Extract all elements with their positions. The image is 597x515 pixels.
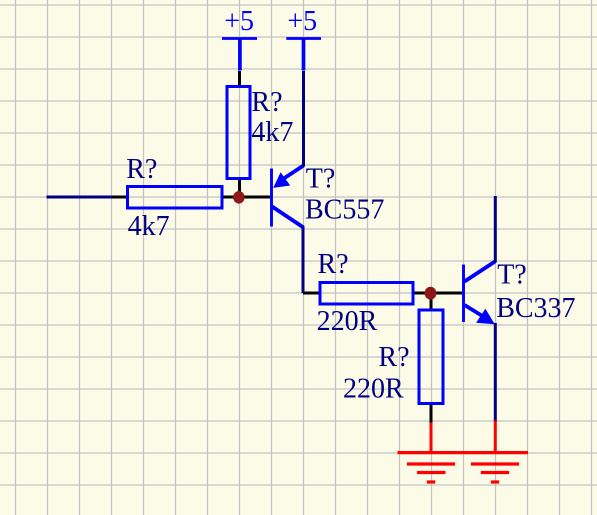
ground bar shared — [398, 451, 529, 454]
svg-text:+5: +5 — [224, 6, 254, 37]
wire pin black: P1 to R2 top — [238, 71, 241, 85]
svg-text:T?: T? — [306, 163, 336, 194]
resistor R1 horizontal 4k7 body — [128, 187, 223, 209]
node B junction dot — [425, 287, 437, 300]
node A junction dot — [233, 191, 245, 204]
wire pin black: R1 right to node A to Q1 base — [224, 196, 271, 199]
wire pin black: R2 bottom to node A — [238, 180, 241, 197]
svg-text:220R: 220R — [343, 373, 404, 404]
resistor R4 vertical 220R body — [419, 310, 443, 404]
svg-text:4k7: 4k7 — [128, 211, 170, 242]
wire red: Q2 emitter to ground — [494, 421, 497, 453]
wire navy input left — [47, 196, 115, 199]
wire navy: Q2 emitter down — [494, 323, 497, 422]
transistor Q1 BC557 PNP — [272, 166, 304, 228]
svg-text:BC557: BC557 — [305, 194, 384, 225]
wire pin black: node B down to R4 top — [430, 293, 433, 309]
svg-text:R?: R? — [318, 249, 349, 280]
wire pin black: R4 bottom — [430, 405, 433, 424]
power +5 symbol P2 — [286, 39, 321, 71]
wire navy: Q1 collector down — [302, 227, 305, 294]
svg-text:BC337: BC337 — [496, 293, 575, 324]
wire pin black: R3 right to node B to Q2 base — [415, 292, 463, 295]
wire navy: Q2 collector up — [494, 196, 497, 263]
svg-text:+5: +5 — [287, 6, 317, 37]
transistor Q2 emitter arrow — [476, 309, 495, 325]
svg-text:R?: R? — [378, 342, 409, 373]
svg-text:220R: 220R — [317, 306, 378, 337]
wire pin black: into R1 — [112, 196, 127, 199]
wire pin black: to R3 left — [303, 292, 320, 295]
resistor R3 horizontal 220R body — [320, 283, 413, 305]
svg-text:T?: T? — [497, 259, 527, 290]
transistor Q2 BC337 NPN — [464, 262, 496, 323]
svg-text:4k7: 4k7 — [251, 117, 293, 148]
svg-text:R?: R? — [251, 87, 282, 118]
resistor R2 vertical 4k7 body — [227, 87, 250, 179]
transistor Q1 emitter arrow — [273, 172, 290, 188]
ground GND2 — [471, 464, 519, 482]
wire navy: P2 to Q1 emitter — [302, 71, 305, 167]
ground GND1 — [407, 464, 455, 482]
svg-text:R?: R? — [126, 154, 157, 185]
power +5 symbol P1 — [222, 39, 257, 71]
wire red: R4 to ground — [430, 423, 433, 453]
